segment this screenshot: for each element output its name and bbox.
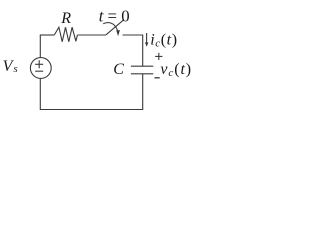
wire top middle (resistor to switch) (77, 34, 106, 36)
current arrow i_c(t) shaft (146, 33, 148, 44)
voltage source Vs circle (30, 58, 51, 79)
svg-text:t = 0: t = 0 (99, 7, 130, 26)
wire bottom horizontal (40, 109, 143, 111)
wire top-right horizontal (123, 34, 143, 36)
svg-text:s: s (13, 63, 17, 75)
resistor R (54, 27, 77, 42)
minus sign inside source (35, 70, 43, 72)
switch blade (open, t=0) (106, 20, 124, 35)
capacitor plus polarity mark (155, 53, 162, 60)
wire right vertical lower (capacitor to bottom rail) (142, 74, 144, 110)
capacitor C top plate (131, 65, 153, 67)
capacitor C bottom plate (131, 73, 153, 75)
capacitor minus polarity mark (155, 77, 160, 79)
svg-text:R: R (60, 10, 71, 27)
wire right vertical upper (to capacitor) (142, 35, 144, 67)
switch arrowhead (116, 30, 120, 36)
svg-text:ic(t): ic(t) (150, 31, 177, 49)
plus sign inside source (35, 60, 43, 68)
svg-text:vc(t): vc(t) (160, 61, 192, 79)
svg-text:C: C (113, 61, 124, 78)
wire left vertical bottom (bottom rail to source) (39, 78, 41, 110)
current arrow head (145, 42, 149, 46)
switch closing arc (103, 23, 118, 32)
wire top-left horizontal (40, 34, 55, 36)
wire left vertical top (source to top rail) (39, 35, 41, 58)
